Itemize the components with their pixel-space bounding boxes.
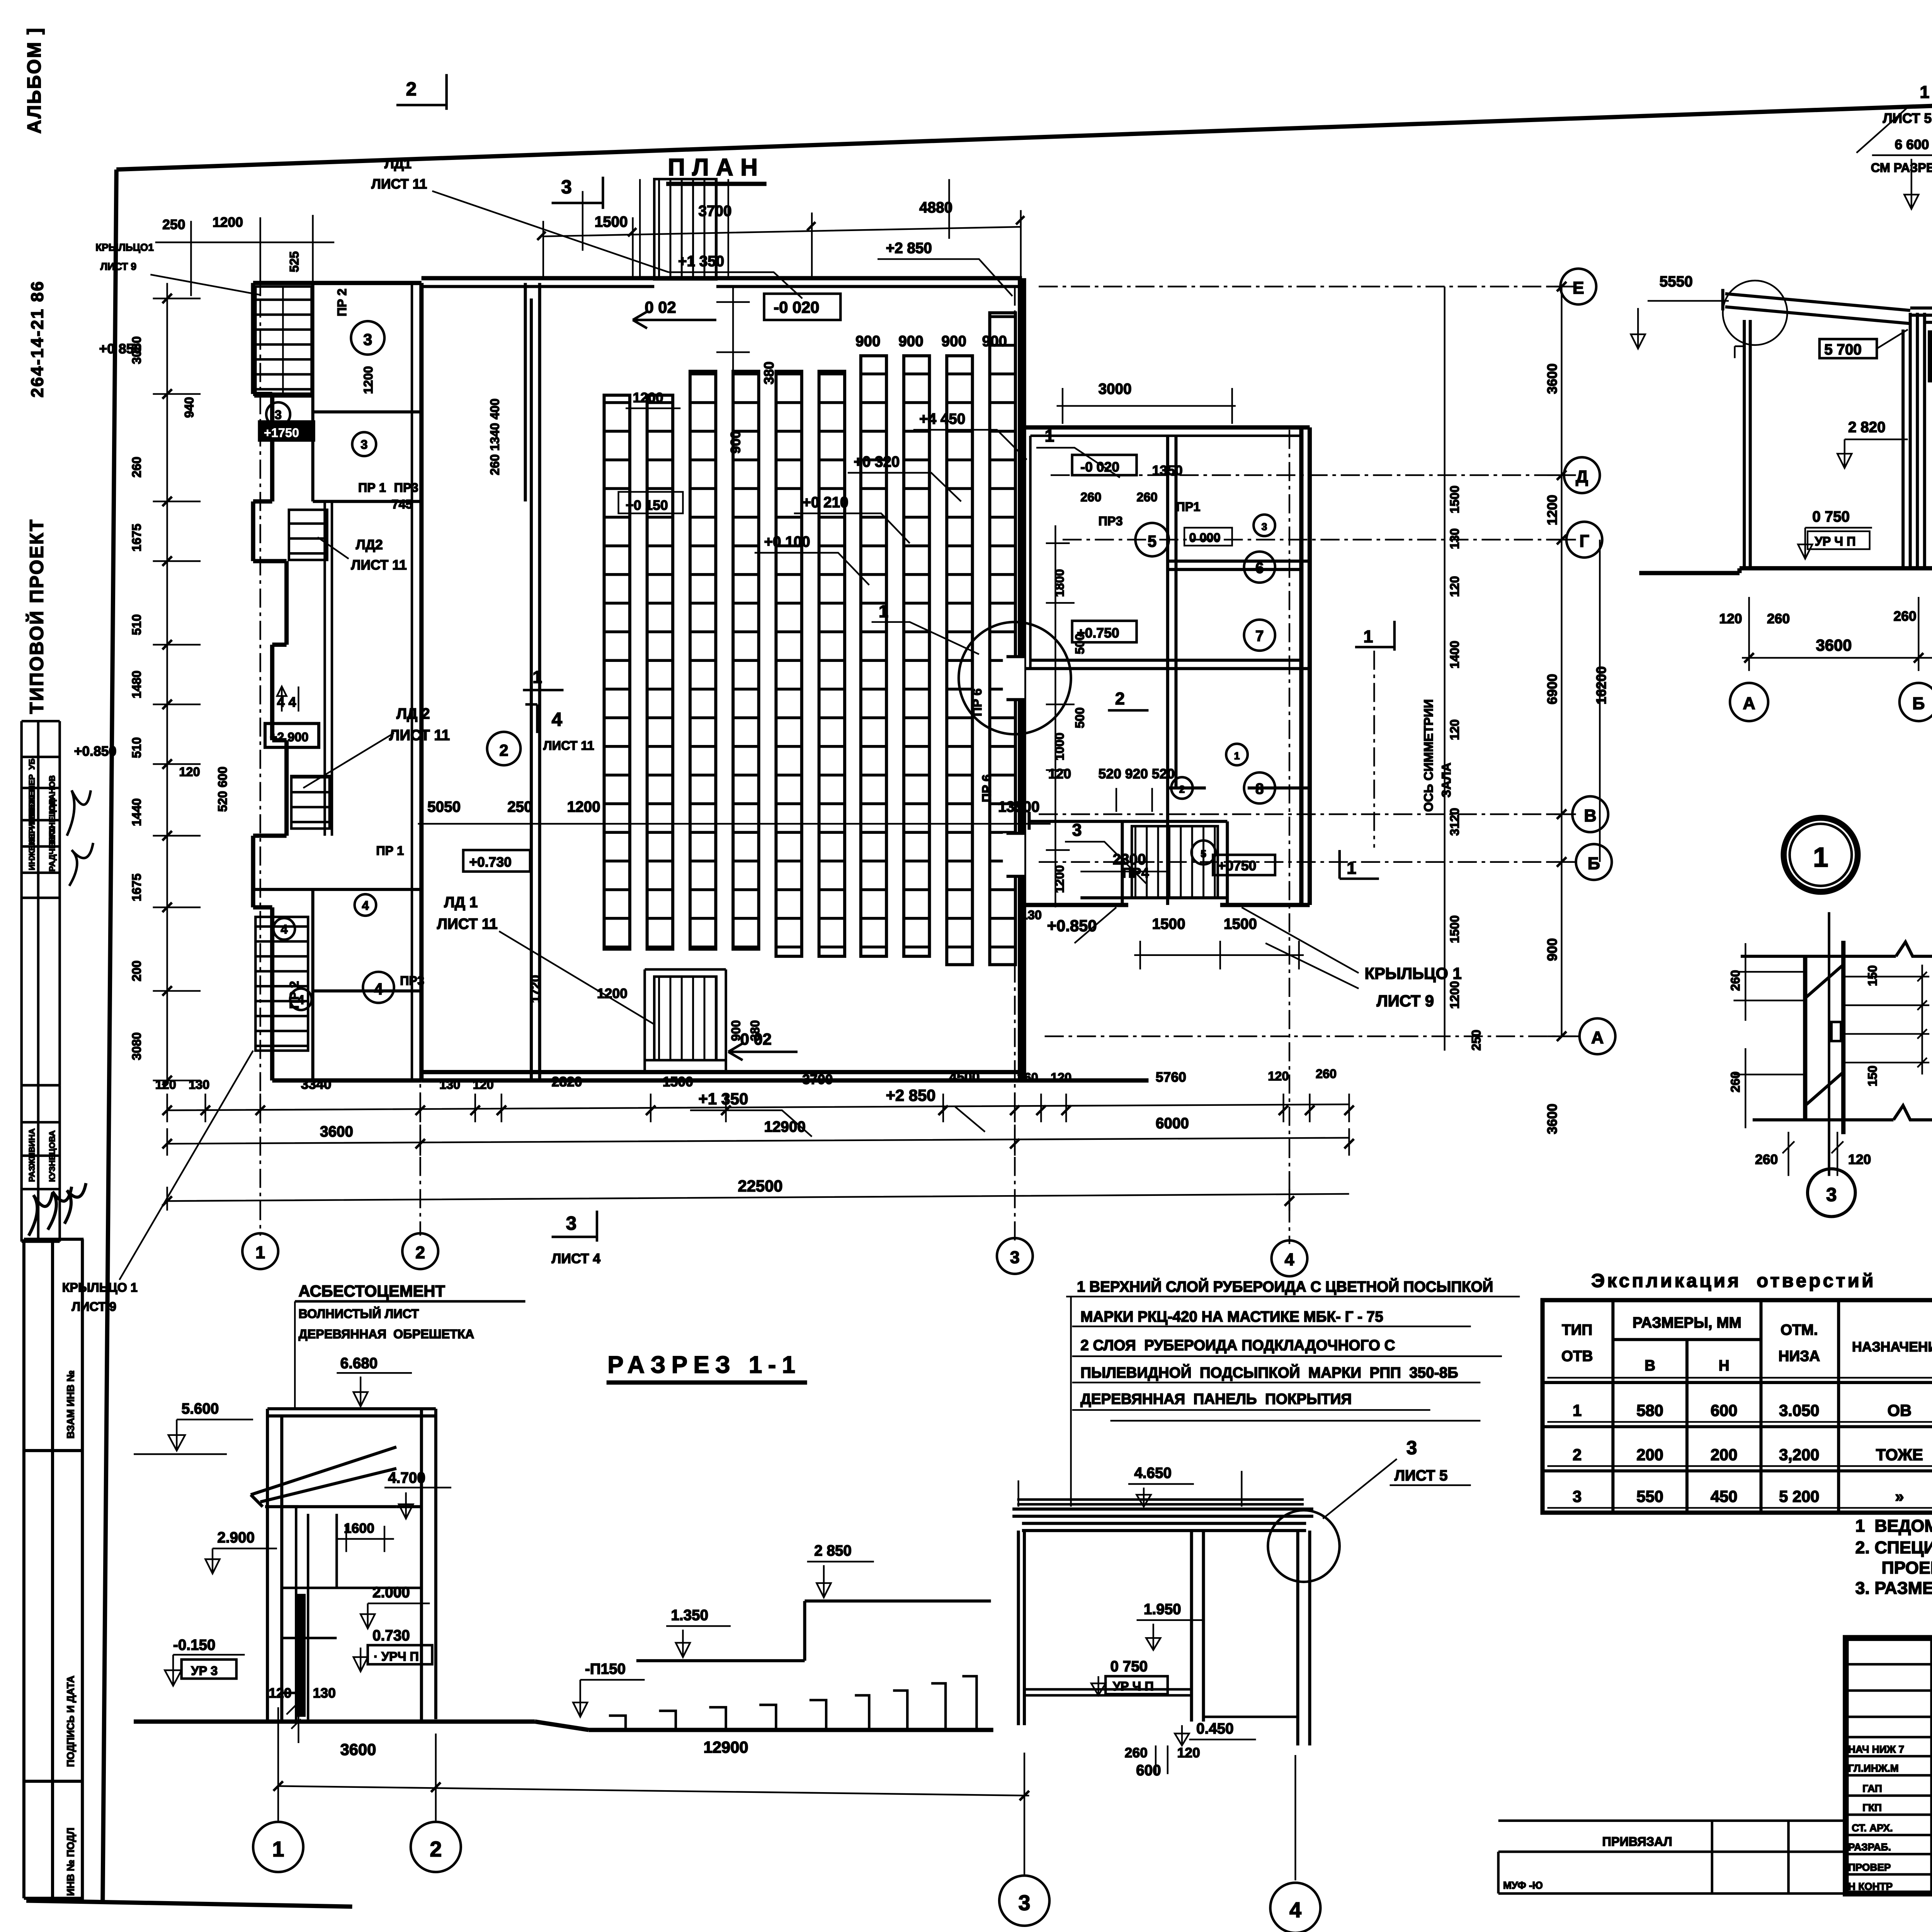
svg-text:4: 4 xyxy=(552,709,563,730)
svg-text:КРЫЛЬЦО 1: КРЫЛЬЦО 1 xyxy=(62,1281,138,1294)
svg-text:2. СПЕЦИФИКАЦИЮ ЗАПОЛНЕНИЯ Д: 2. СПЕЦИФИКАЦИЮ ЗАПОЛНЕНИЯ ДВЕРНЫХ И ОКО… xyxy=(1855,1538,1932,1557)
svg-text:+0750: +0750 xyxy=(1218,858,1257,873)
svg-text:+0 210: +0 210 xyxy=(802,494,848,511)
svg-text:120: 120 xyxy=(1848,1152,1871,1167)
svg-text:130: 130 xyxy=(1448,528,1462,549)
svg-text:СМ РАЗРЕЗ 1-1: СМ РАЗРЕЗ 1-1 xyxy=(1871,161,1932,175)
svg-text:16200: 16200 xyxy=(1594,666,1609,704)
svg-text:940: 940 xyxy=(182,397,196,418)
svg-text:200: 200 xyxy=(1711,1446,1738,1464)
svg-text:900: 900 xyxy=(982,333,1007,350)
svg-text:4: 4 xyxy=(1285,1250,1294,1269)
svg-text:1200: 1200 xyxy=(597,986,628,1001)
svg-text:Е: Е xyxy=(1573,278,1584,298)
svg-text:380: 380 xyxy=(761,362,777,384)
svg-text:600: 600 xyxy=(1711,1401,1738,1419)
svg-text:ЛД2: ЛД2 xyxy=(356,537,383,552)
svg-text:3600: 3600 xyxy=(1544,364,1560,394)
svg-text:Н КОНТР: Н КОНТР xyxy=(1848,1881,1893,1892)
svg-text:260: 260 xyxy=(1125,1745,1148,1760)
svg-text:4: 4 xyxy=(281,922,287,936)
svg-text:1200: 1200 xyxy=(1544,495,1560,525)
svg-text:1500: 1500 xyxy=(1152,916,1185,932)
svg-text:»: » xyxy=(1895,1487,1904,1505)
svg-text:3700: 3700 xyxy=(699,203,732,219)
svg-text:200: 200 xyxy=(130,961,144,981)
svg-text:Г: Г xyxy=(1579,531,1589,551)
svg-text:ПР3: ПР3 xyxy=(400,974,424,988)
svg-text:264-14-21 86: 264-14-21 86 xyxy=(27,280,47,398)
svg-text:+2 900: +2 900 xyxy=(270,730,308,744)
svg-text:-0 020: -0 020 xyxy=(1080,459,1119,474)
svg-text:260: 260 xyxy=(1728,1071,1742,1092)
svg-text:ЛД 1: ЛД 1 xyxy=(444,894,478,911)
svg-text:СТ. АРХ.: СТ. АРХ. xyxy=(1852,1822,1893,1834)
svg-text:+4 450: +4 450 xyxy=(919,411,965,427)
svg-text:УР Ч П: УР Ч П xyxy=(1113,1679,1154,1693)
svg-text:5050: 5050 xyxy=(427,799,461,815)
svg-text:1: 1 xyxy=(879,602,888,621)
svg-text:1: 1 xyxy=(532,667,542,687)
svg-text:Д: Д xyxy=(1576,467,1588,486)
svg-text:ПР 6: ПР 6 xyxy=(980,774,994,802)
svg-text:250: 250 xyxy=(162,217,185,232)
svg-text:4880: 4880 xyxy=(919,199,952,216)
svg-text:130: 130 xyxy=(1021,908,1042,922)
svg-text:3: 3 xyxy=(1573,1487,1582,1505)
svg-text:РАДЧЕНКО: РАДЧЕНКО xyxy=(47,825,57,871)
svg-text:1.350: 1.350 xyxy=(671,1607,708,1624)
svg-text:6000: 6000 xyxy=(1156,1115,1189,1132)
svg-text:1200: 1200 xyxy=(361,366,375,394)
svg-text:ОВ: ОВ xyxy=(1888,1401,1912,1419)
svg-text:1480: 1480 xyxy=(130,670,144,698)
svg-text:5 700: 5 700 xyxy=(1824,342,1862,358)
svg-text:ДЕРЕВЯННАЯ ПАНЕЛЬ ПОКРЫТИЯ: ДЕРЕВЯННАЯ ПАНЕЛЬ ПОКРЫТИЯ xyxy=(1080,1391,1352,1408)
svg-text:1350: 1350 xyxy=(1152,463,1183,478)
svg-text:2 820: 2 820 xyxy=(1848,419,1886,435)
svg-text:ПЫЛЕВИДНОЙ ПОДСЫПКОЙ МАРКИ: ПЫЛЕВИДНОЙ ПОДСЫПКОЙ МАРКИ РПП 350-8Б xyxy=(1080,1364,1458,1381)
svg-text:ПР 1: ПР 1 xyxy=(358,481,386,495)
svg-text:+1750: +1750 xyxy=(264,426,299,440)
svg-text:3. РАЗМЕРЫ ОКОННЫХ ПРОЕМОВ: 3. РАЗМЕРЫ ОКОННЫХ ПРОЕМОВ В КЛАДКЕ СМ. … xyxy=(1855,1578,1932,1598)
svg-text:ТИП: ТИП xyxy=(1562,1321,1592,1338)
svg-text:3600: 3600 xyxy=(340,1740,376,1759)
svg-text:1440: 1440 xyxy=(130,798,144,826)
svg-text:120: 120 xyxy=(155,1078,176,1092)
svg-text:510: 510 xyxy=(130,737,144,758)
svg-text:1.950: 1.950 xyxy=(1144,1601,1181,1617)
svg-text:22500: 22500 xyxy=(738,1177,783,1195)
svg-text:+0.850: +0.850 xyxy=(1047,917,1097,935)
svg-text:МУФ -Ю: МУФ -Ю xyxy=(1503,1879,1543,1891)
svg-text:Экспликация отверстий: Экспликация отверстий xyxy=(1591,1270,1876,1291)
svg-text:120: 120 xyxy=(269,1685,291,1701)
svg-text:НИЗА: НИЗА xyxy=(1778,1348,1820,1364)
svg-text:2300: 2300 xyxy=(1113,851,1146,868)
svg-text:3: 3 xyxy=(566,1213,577,1234)
svg-text:5: 5 xyxy=(1148,532,1156,550)
svg-text:ПР1: ПР1 xyxy=(1176,500,1200,514)
svg-text:3700: 3700 xyxy=(802,1071,833,1087)
svg-text:6900: 6900 xyxy=(1544,674,1560,704)
svg-text:13500: 13500 xyxy=(998,799,1039,815)
svg-text:4: 4 xyxy=(374,980,383,998)
svg-text:1500: 1500 xyxy=(1448,485,1462,513)
svg-text:250: 250 xyxy=(507,799,532,815)
svg-text:ПР 1: ПР 1 xyxy=(376,844,404,857)
svg-text:+1 350: +1 350 xyxy=(678,253,724,270)
svg-text:260: 260 xyxy=(1017,1070,1038,1084)
svg-text:260: 260 xyxy=(1755,1152,1778,1167)
svg-text:АСБЕСТОЦЕМЕНТ: АСБЕСТОЦЕМЕНТ xyxy=(298,1282,445,1300)
svg-text:1 ВЕРХНИЙ СЛОЙ РУБЕРОИДА С ЦВЕ: 1 ВЕРХНИЙ СЛОЙ РУБЕРОИДА С ЦВЕТНОЙ ПОСЫП… xyxy=(1077,1278,1493,1295)
svg-text:1: 1 xyxy=(1920,82,1929,102)
svg-text:1675: 1675 xyxy=(130,874,144,901)
svg-text:1: 1 xyxy=(1045,426,1054,446)
svg-text:5760: 5760 xyxy=(1156,1069,1186,1085)
svg-text:4.700: 4.700 xyxy=(388,1469,425,1486)
svg-text:-0 020: -0 020 xyxy=(774,298,819,316)
svg-text:В: В xyxy=(1645,1357,1655,1374)
svg-text:ЛИСТ 4: ЛИСТ 4 xyxy=(552,1251,601,1266)
svg-text:500: 500 xyxy=(1073,707,1087,728)
svg-text:2: 2 xyxy=(1115,689,1125,708)
svg-text:Б: Б xyxy=(1912,694,1925,713)
svg-text:+0 850: +0 850 xyxy=(99,341,141,357)
svg-text:ЛИСТ 11: ЛИСТ 11 xyxy=(351,557,406,573)
svg-text:0 02: 0 02 xyxy=(645,298,676,316)
svg-text:5550: 5550 xyxy=(1660,274,1693,290)
svg-text:600: 600 xyxy=(1136,1762,1161,1779)
svg-text:ВОЛНИСТЫЙ ЛИСТ: ВОЛНИСТЫЙ ЛИСТ xyxy=(298,1306,419,1321)
svg-text:1500: 1500 xyxy=(663,1074,693,1090)
svg-text:3: 3 xyxy=(1406,1437,1417,1458)
svg-text:6: 6 xyxy=(1255,560,1264,577)
svg-text:ПРОВЕР: ПРОВЕР xyxy=(1848,1862,1891,1873)
svg-text:1: 1 xyxy=(1234,750,1240,762)
svg-text:900: 900 xyxy=(898,333,923,350)
svg-text:Б: Б xyxy=(1588,854,1600,873)
svg-text:260 1340 400: 260 1340 400 xyxy=(488,398,502,475)
svg-text:3: 3 xyxy=(1010,1248,1020,1267)
svg-text:0 000: 0 000 xyxy=(1189,531,1220,545)
svg-text:3.050: 3.050 xyxy=(1779,1401,1819,1419)
svg-text:1720: 1720 xyxy=(529,975,543,1003)
svg-text:2: 2 xyxy=(1573,1446,1582,1464)
svg-text:1675: 1675 xyxy=(130,524,144,551)
svg-text:1400: 1400 xyxy=(1448,641,1462,668)
svg-text:250: 250 xyxy=(1469,1030,1483,1051)
svg-text:ТИПОВОЙ ПРОЕКТ: ТИПОВОЙ ПРОЕКТ xyxy=(25,519,47,714)
svg-text:ТОЖЕ: ТОЖЕ xyxy=(1876,1446,1923,1464)
svg-text:РАЗМЕРЫ, ММ: РАЗМЕРЫ, ММ xyxy=(1633,1315,1742,1331)
svg-text:+1 350: +1 350 xyxy=(699,1090,748,1108)
svg-text:120: 120 xyxy=(1268,1069,1289,1083)
svg-text:120: 120 xyxy=(1719,611,1742,626)
svg-text:ВЗАМ ИНВ №: ВЗАМ ИНВ № xyxy=(65,1371,77,1439)
svg-text:3,200: 3,200 xyxy=(1779,1446,1819,1464)
svg-text:120: 120 xyxy=(1051,1070,1071,1084)
svg-text:+0 150: +0 150 xyxy=(626,497,668,513)
svg-text:2820: 2820 xyxy=(552,1074,582,1090)
svg-text:1600: 1600 xyxy=(344,1520,374,1536)
svg-text:РАЗЖИВИНА: РАЗЖИВИНА xyxy=(27,1128,37,1182)
svg-text:1: 1 xyxy=(1364,627,1373,646)
svg-text:ПОДПИСЬ И ДАТА: ПОДПИСЬ И ДАТА xyxy=(65,1675,77,1767)
svg-text:6.680: 6.680 xyxy=(340,1355,378,1372)
svg-text:5.600: 5.600 xyxy=(182,1400,219,1417)
svg-text:ЗАЛА: ЗАЛА xyxy=(1439,763,1453,798)
svg-text:+2 850: +2 850 xyxy=(886,1086,936,1104)
svg-text:ПР3: ПР3 xyxy=(394,481,418,495)
svg-text:ПР 6: ПР 6 xyxy=(970,689,984,716)
svg-text:ИНВ № ПОДЛ: ИНВ № ПОДЛ xyxy=(65,1828,77,1896)
svg-text:РАЗРЕЗ 1-1: РАЗРЕЗ 1-1 xyxy=(607,1352,801,1378)
svg-text:4: 4 xyxy=(1289,1898,1301,1922)
svg-text:ПР 2: ПР 2 xyxy=(335,289,349,316)
svg-text:900: 900 xyxy=(729,1020,743,1041)
svg-text:120: 120 xyxy=(1448,576,1462,597)
svg-text:-0.150: -0.150 xyxy=(173,1637,215,1653)
svg-text:2.000: 2.000 xyxy=(372,1584,410,1601)
svg-text:ГКП: ГКП xyxy=(1862,1802,1882,1813)
svg-text:4500: 4500 xyxy=(949,1069,980,1085)
svg-text:260: 260 xyxy=(1080,490,1101,504)
svg-text:2 850: 2 850 xyxy=(814,1543,852,1559)
svg-text:4.650: 4.650 xyxy=(1134,1465,1172,1481)
svg-text:УР 3: УР 3 xyxy=(191,1664,218,1678)
svg-text:МАРКИ РКЦ-420 НА МАСТИКЕ МБК-: МАРКИ РКЦ-420 НА МАСТИКЕ МБК- Г - 75 xyxy=(1080,1308,1383,1325)
svg-text:ПРОЕМОВ СМ. ЛИСТ 6.: ПРОЕМОВ СМ. ЛИСТ 6. xyxy=(1882,1558,1932,1577)
svg-text:380: 380 xyxy=(748,1020,762,1041)
svg-text:КУЗНЕЦОВА: КУЗНЕЦОВА xyxy=(47,1130,57,1182)
svg-text:3: 3 xyxy=(561,177,572,198)
svg-text:+0.750: +0.750 xyxy=(1077,625,1119,641)
svg-text:1 ВЕДОМОСТЬ И СПЕЦИФИКАЦИЮ: 1 ВЕДОМОСТЬ И СПЕЦИФИКАЦИЮ ПЕРЕМЫЧЕК СМ.… xyxy=(1855,1516,1932,1536)
svg-text:3340: 3340 xyxy=(301,1077,332,1092)
svg-text:3: 3 xyxy=(1262,521,1267,532)
svg-text:ОСЬ СИММЕТРИИ: ОСЬ СИММЕТРИИ xyxy=(1422,699,1435,812)
svg-text:+2 850: +2 850 xyxy=(886,240,932,257)
svg-text:ЛИСТ 11: ЛИСТ 11 xyxy=(371,176,427,192)
svg-text:1500: 1500 xyxy=(1224,916,1257,932)
svg-text:2.900: 2.900 xyxy=(217,1529,255,1546)
svg-text:1: 1 xyxy=(1813,842,1828,873)
svg-text:3: 3 xyxy=(363,330,372,349)
svg-text:ЛИСТ 11: ЛИСТ 11 xyxy=(437,916,498,932)
svg-text:1: 1 xyxy=(255,1243,265,1262)
svg-text:550: 550 xyxy=(1636,1487,1663,1505)
svg-text:АЛЬБОМ ]: АЛЬБОМ ] xyxy=(24,27,45,134)
svg-text:260: 260 xyxy=(1893,609,1916,624)
svg-text:ГАП: ГАП xyxy=(1862,1783,1882,1794)
svg-text:ЛИСТ 9: ЛИСТ 9 xyxy=(1377,992,1434,1010)
svg-text:12900: 12900 xyxy=(764,1119,805,1135)
svg-text:3: 3 xyxy=(1072,820,1082,840)
svg-text:ЛД 2: ЛД 2 xyxy=(396,706,430,722)
svg-text:РАЗРАБ.: РАЗРАБ. xyxy=(1848,1841,1891,1853)
svg-text:ЛИСТ 11: ЛИСТ 11 xyxy=(389,727,450,744)
svg-text:ПР 2: ПР 2 xyxy=(287,981,301,1009)
svg-text:Н: Н xyxy=(1719,1357,1730,1374)
svg-text:А: А xyxy=(1591,1028,1604,1047)
svg-text:130: 130 xyxy=(439,1078,460,1092)
svg-text:ПЛАН: ПЛАН xyxy=(668,154,765,181)
svg-text:1500: 1500 xyxy=(1448,915,1462,943)
svg-text:200: 200 xyxy=(1636,1446,1663,1464)
svg-text:2: 2 xyxy=(415,1243,425,1262)
svg-text:3600: 3600 xyxy=(1816,636,1852,654)
svg-text:2 СЛОЯ РУБЕРОИДА ПОДКЛАДОЧНОГ: 2 СЛОЯ РУБЕРОИДА ПОДКЛАДОЧНОГО С xyxy=(1080,1337,1395,1354)
svg-text:ЛИСТ 9: ЛИСТ 9 xyxy=(71,1300,116,1314)
svg-text:580: 580 xyxy=(1636,1401,1663,1419)
svg-text:-П150: -П150 xyxy=(585,1661,626,1677)
svg-text:3120: 3120 xyxy=(1448,808,1462,836)
svg-text:1: 1 xyxy=(272,1837,284,1861)
svg-text:12900: 12900 xyxy=(704,1738,748,1756)
svg-text:260: 260 xyxy=(1136,490,1157,504)
svg-text:2: 2 xyxy=(499,741,508,759)
svg-text:150: 150 xyxy=(1866,1066,1879,1087)
svg-text:8: 8 xyxy=(1255,781,1264,798)
svg-text:0.730: 0.730 xyxy=(372,1627,410,1644)
svg-text:3000: 3000 xyxy=(1099,381,1132,398)
svg-text:· УРЧ П: · УРЧ П xyxy=(374,1650,419,1663)
svg-text:0 750: 0 750 xyxy=(1812,509,1850,525)
svg-text:3: 3 xyxy=(1826,1184,1837,1205)
svg-text:1: 1 xyxy=(1347,859,1356,878)
svg-text:1200: 1200 xyxy=(213,214,243,230)
svg-text:120: 120 xyxy=(1048,766,1071,782)
svg-text:+0 100: +0 100 xyxy=(764,534,810,550)
svg-text:ПР3: ПР3 xyxy=(1099,514,1123,528)
svg-text:0.450: 0.450 xyxy=(1196,1720,1234,1737)
svg-text:1200: 1200 xyxy=(633,390,663,405)
svg-text:В: В xyxy=(1584,806,1596,825)
svg-text:ЛИСТ 5: ЛИСТ 5 xyxy=(1395,1467,1448,1484)
svg-text:525: 525 xyxy=(287,251,301,272)
svg-text:7: 7 xyxy=(1255,628,1264,645)
svg-text:2: 2 xyxy=(1179,784,1185,795)
svg-text:+0 320: +0 320 xyxy=(854,454,900,470)
svg-text:260: 260 xyxy=(1316,1067,1337,1081)
svg-text:5 200: 5 200 xyxy=(1779,1487,1819,1505)
svg-text:120: 120 xyxy=(179,765,200,779)
svg-text:ГЛ.ИНЖ.М: ГЛ.ИНЖ.М xyxy=(1848,1762,1899,1774)
svg-text:1: 1 xyxy=(1573,1401,1582,1419)
svg-text:2: 2 xyxy=(430,1837,442,1861)
svg-text:3080: 3080 xyxy=(130,1032,144,1060)
svg-text:120: 120 xyxy=(1448,719,1462,740)
svg-text:3600: 3600 xyxy=(320,1123,353,1140)
svg-text:А: А xyxy=(1743,694,1755,713)
svg-text:1200: 1200 xyxy=(1448,981,1462,1009)
svg-text:130: 130 xyxy=(313,1685,336,1701)
svg-text:3: 3 xyxy=(275,408,282,422)
svg-text:120: 120 xyxy=(1177,1745,1200,1760)
svg-text:4: 4 xyxy=(362,898,369,912)
svg-text:130: 130 xyxy=(189,1078,209,1092)
svg-text:120: 120 xyxy=(473,1078,494,1092)
svg-text:6 600: 6 600 xyxy=(1895,137,1929,152)
svg-text:0 750: 0 750 xyxy=(1111,1658,1148,1675)
svg-text:260: 260 xyxy=(1767,611,1790,626)
svg-text:НАЧ НИЖ 7: НАЧ НИЖ 7 xyxy=(1848,1743,1904,1755)
svg-text:+0.850: +0.850 xyxy=(74,743,117,759)
svg-text:ЛИСТ 11: ЛИСТ 11 xyxy=(543,738,594,752)
svg-text:3: 3 xyxy=(1019,1891,1031,1915)
svg-text:УР Ч П: УР Ч П xyxy=(1815,534,1855,548)
svg-text:ПРИВЯЗАЛ: ПРИВЯЗАЛ xyxy=(1602,1835,1672,1849)
svg-text:510: 510 xyxy=(130,614,144,635)
svg-text:2: 2 xyxy=(406,78,417,100)
svg-text:1200: 1200 xyxy=(567,799,600,815)
svg-text:900: 900 xyxy=(942,333,966,350)
svg-text:900: 900 xyxy=(1544,938,1560,961)
svg-text:ЛД1: ЛД1 xyxy=(384,156,412,172)
svg-text:150: 150 xyxy=(1866,965,1879,986)
svg-text:5: 5 xyxy=(1201,848,1206,859)
svg-text:3: 3 xyxy=(361,438,367,452)
svg-text:ДЕРЕВЯННАЯ ОБРЕШЕТКА: ДЕРЕВЯННАЯ ОБРЕШЕТКА xyxy=(298,1327,474,1341)
svg-text:260: 260 xyxy=(1728,970,1742,991)
svg-text:520 600: 520 600 xyxy=(216,767,230,812)
svg-text:3600: 3600 xyxy=(1544,1104,1560,1134)
svg-text:1500: 1500 xyxy=(595,214,628,230)
svg-text:260: 260 xyxy=(130,457,144,478)
svg-text:520 920 520: 520 920 520 xyxy=(1099,766,1175,782)
svg-text:КРЫЛЬЦО 1: КРЫЛЬЦО 1 xyxy=(1365,964,1462,983)
svg-text:КРЫЛЬЦО1: КРЫЛЬЦО1 xyxy=(95,241,154,253)
svg-text:ОТВ: ОТВ xyxy=(1561,1348,1593,1364)
svg-text:ОТМ.: ОТМ. xyxy=(1781,1321,1818,1338)
svg-text:745: 745 xyxy=(391,497,412,511)
svg-text:900: 900 xyxy=(855,333,880,350)
svg-text:ИНЖЕНЕР ТУК: ИНЖЕНЕР ТУК xyxy=(27,810,37,870)
svg-text:ЛИСТ 9: ЛИСТ 9 xyxy=(100,260,137,272)
svg-text:450: 450 xyxy=(1711,1487,1738,1505)
svg-text:+0.730: +0.730 xyxy=(469,854,512,870)
svg-text:900: 900 xyxy=(728,431,743,454)
svg-text:НАЗНАЧЕНИЕ: НАЗНАЧЕНИЕ xyxy=(1852,1339,1932,1355)
